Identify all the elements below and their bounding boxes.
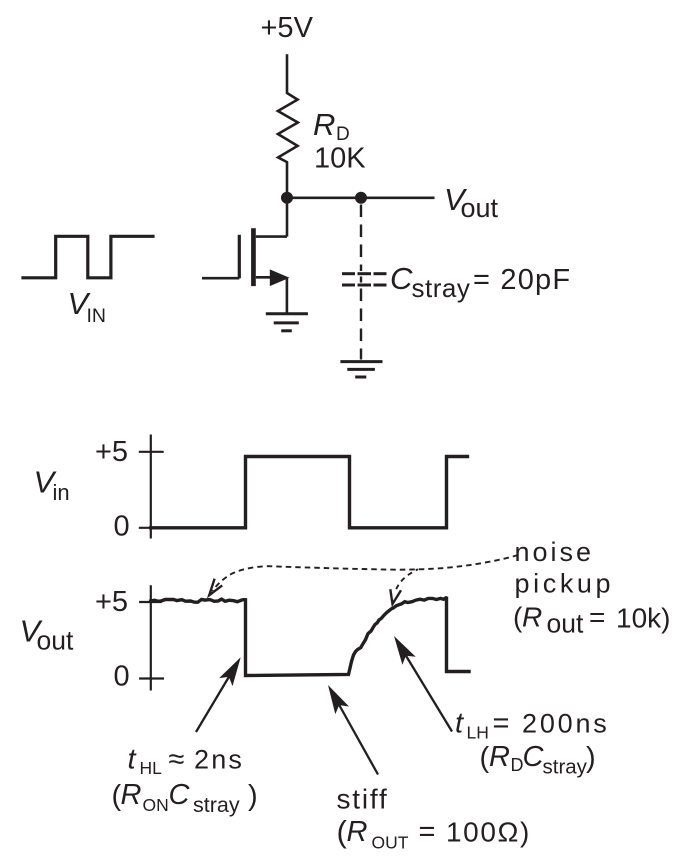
svg-text:C: C xyxy=(169,779,191,811)
svg-text:stiff: stiff xyxy=(337,784,389,815)
svg-text:IN: IN xyxy=(87,305,107,327)
svg-text:stray: stray xyxy=(193,793,240,817)
svg-text:+5: +5 xyxy=(95,436,128,468)
svg-text:2ns: 2ns xyxy=(194,745,244,775)
svg-text:stray: stray xyxy=(543,756,588,779)
svg-text:=: = xyxy=(493,708,510,740)
svg-text:noise: noise xyxy=(515,537,595,567)
svg-text:R: R xyxy=(522,602,542,633)
svg-text:out: out xyxy=(461,193,499,223)
svg-text:≈: ≈ xyxy=(169,744,185,776)
svg-text:stray: stray xyxy=(412,273,471,303)
svg-text:C: C xyxy=(390,261,413,296)
svg-text:= 20pF: = 20pF xyxy=(473,264,571,296)
svg-text:pickup: pickup xyxy=(515,569,615,599)
svg-text:ON: ON xyxy=(143,795,169,815)
svg-text:): ) xyxy=(586,742,596,774)
svg-text:): ) xyxy=(248,780,258,812)
svg-text:OUT: OUT xyxy=(372,833,409,853)
svg-text:(: ( xyxy=(480,742,490,774)
svg-text:=: = xyxy=(419,816,436,848)
svg-text:R: R xyxy=(313,107,335,142)
svg-text:R: R xyxy=(121,779,142,811)
svg-text:out: out xyxy=(37,626,74,656)
svg-text:+5: +5 xyxy=(95,586,128,618)
svg-text:0: 0 xyxy=(114,511,130,543)
svg-text:HL: HL xyxy=(140,758,163,778)
svg-text:C: C xyxy=(523,741,545,773)
svg-text:+5V: +5V xyxy=(261,12,314,44)
svg-text:100Ω): 100Ω) xyxy=(446,817,531,848)
svg-text:R: R xyxy=(347,816,368,848)
svg-text:in: in xyxy=(53,480,70,505)
svg-text:0: 0 xyxy=(114,661,130,693)
svg-text:200ns: 200ns xyxy=(522,709,610,739)
svg-text:LH: LH xyxy=(467,723,489,743)
svg-text:10k): 10k) xyxy=(616,603,670,634)
svg-text:10K: 10K xyxy=(314,143,366,175)
svg-text:R: R xyxy=(489,741,510,773)
svg-text:out: out xyxy=(547,609,584,639)
svg-text:=: = xyxy=(589,602,605,633)
